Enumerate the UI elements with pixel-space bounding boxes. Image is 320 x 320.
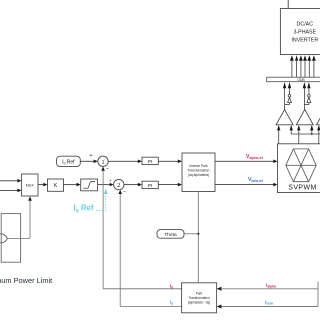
svg-text:DC/AC: DC/AC — [297, 21, 314, 27]
svg-text:PI: PI — [148, 159, 153, 165]
svg-text:2: 2 — [117, 182, 120, 189]
svg-text:Transformation: Transformation — [187, 169, 209, 173]
svg-text:MUX: MUX — [26, 184, 35, 188]
svg-text:PI: PI — [148, 183, 153, 189]
svg-text:(dq-alphabeta): (dq-alphabeta) — [188, 173, 209, 177]
svg-text:Maximum Power Limit: Maximum Power Limit — [0, 276, 52, 285]
svg-text:Transformation: Transformation — [188, 296, 210, 300]
svg-text:Inverse Park: Inverse Park — [189, 164, 208, 168]
svg-text:INVERTER: INVERTER — [291, 38, 318, 44]
svg-text:−: − — [123, 189, 126, 195]
svg-text:+: + — [90, 153, 93, 159]
svg-text:GDB: GDB — [297, 78, 305, 82]
svg-text:SVPWM: SVPWM — [288, 185, 316, 192]
svg-text:1: 1 — [101, 159, 104, 166]
svg-text:Theta: Theta — [164, 232, 177, 238]
svg-text:(alphabeta - dq): (alphabeta - dq) — [188, 300, 211, 304]
svg-text:Park: Park — [196, 291, 203, 295]
svg-text:−: − — [106, 166, 109, 172]
svg-text:+: + — [109, 178, 112, 183]
svg-text:3-PHASE: 3-PHASE — [293, 29, 316, 35]
